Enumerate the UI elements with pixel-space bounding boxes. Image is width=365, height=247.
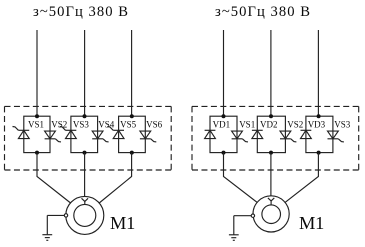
diode VD1 [205,120,231,139]
ground (right) [229,216,239,241]
svg-text:VS2: VS2 [51,120,67,130]
wire: left motor frame to earth [47,214,64,216]
thyristor VS2 [280,120,303,142]
svg-text:VS1: VS1 [239,120,255,130]
wire: left phase 2 supply drop [84,30,86,116]
svg-text:з~50Гц 380 В: з~50Гц 380 В [215,4,311,20]
svg-text:VD2: VD2 [260,120,278,130]
svg-text:M1: M1 [299,213,324,233]
valve pair cell R1 [210,116,237,152]
valve pair cell L1 [24,116,50,152]
valve pair cell L3 [119,116,146,152]
valve pair cell R3 [306,116,333,152]
motor M1 (left) outer circle [66,196,104,234]
wire: right phase 3 to motor [285,153,319,203]
svg-text:M1: M1 [110,213,135,233]
thyristor VS1 [232,120,256,142]
node dot top of cell L3 [130,114,134,118]
wire: right phase 2 to motor [270,153,272,196]
wire: right phase 2 supply drop [270,30,272,116]
node dot bottom of cell L2 [83,151,87,155]
svg-text:VD1: VD1 [213,120,231,130]
svg-text:VS4: VS4 [98,120,115,130]
motor M1 (right) outer circle [253,196,289,232]
svg-text:VS2: VS2 [287,120,303,130]
node dot top of cell L2 [83,114,87,118]
wire: left phase 2 to motor [84,153,86,197]
svg-text:VS1: VS1 [28,120,44,130]
node dot bottom of cell R1 [222,151,226,155]
thyristor VS3 [60,120,90,139]
motor M1 (left) winding Y connection [82,198,89,204]
node dot bottom of cell L3 [130,151,134,155]
dashed enclosure box (right soft-starter) [192,106,359,170]
thyristor VS2 [45,120,68,142]
node dot bottom of cell R2 [269,151,273,155]
dashed enclosure box (left soft-starter) [5,106,172,170]
svg-text:VS3: VS3 [334,120,351,130]
svg-text:VS6: VS6 [146,120,163,130]
node dot top of cell R2 [269,114,273,118]
terminal circle on right motor frame [251,214,254,217]
node dot top of cell R3 [317,114,321,118]
node dot bottom of cell R3 [317,151,321,155]
terminal circle on left motor frame [64,214,67,217]
wire: right phase 3 supply drop [317,30,319,116]
wire: right motor frame to earth [234,215,251,217]
valve pair cell R2 [257,116,285,152]
wire: left phase 1 to motor [37,153,71,203]
wire: left phase 1 supply drop [36,30,38,116]
thyristor VS5 [107,120,136,139]
thyristor VS3 [328,120,351,142]
wire: right phase 1 to motor [224,153,258,203]
wire: right phase 1 supply drop [223,30,225,116]
node dot bottom of cell L1 [35,151,39,155]
wire: left phase 3 to motor [99,153,131,203]
diode VD2 [252,120,278,139]
valve pair cell L2 [71,116,98,152]
svg-text:VD3: VD3 [308,120,326,130]
motor M1 (right) winding Y connection [268,198,274,205]
wire: left phase 3 supply drop [131,30,133,116]
diode VD3 [301,120,326,139]
thyristor VS4 [92,120,115,142]
svg-text:з~50Гц 380 В: з~50Гц 380 В [33,4,129,20]
motor M1 (right) inner circle [262,205,281,224]
node dot top of cell R1 [222,114,226,118]
thyristor VS1 [13,120,45,139]
ground (left) [42,215,52,240]
svg-text:VS3: VS3 [73,120,90,130]
thyristor VS6 [140,120,163,142]
node dot top of cell L1 [35,114,39,118]
motor M1 (left) inner circle [74,204,96,226]
svg-text:VS5: VS5 [120,120,137,130]
